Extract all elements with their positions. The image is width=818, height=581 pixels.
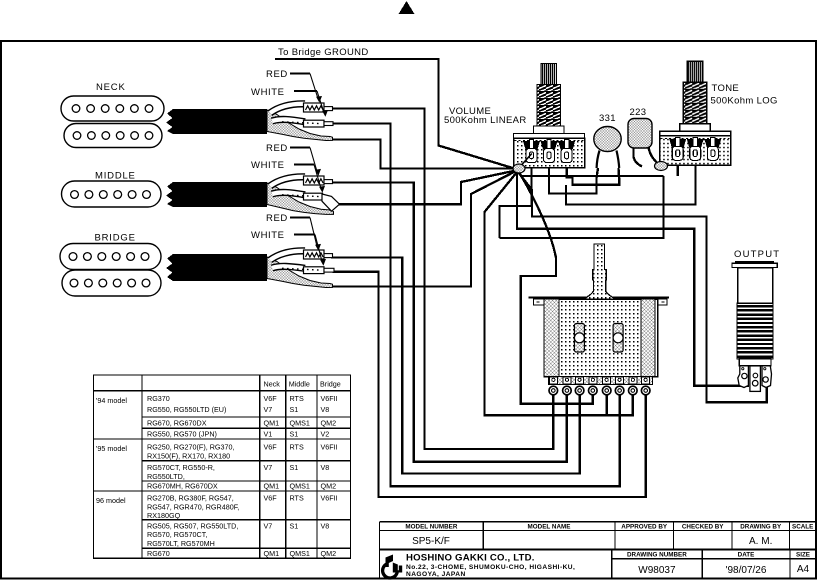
svg-text:APPROVED BY: APPROVED BY	[621, 523, 668, 530]
svg-text:RX180GQ: RX180GQ	[147, 511, 181, 520]
svg-text:QM2: QM2	[321, 549, 337, 558]
svg-text:RG670, RG670DX: RG670, RG670DX	[147, 419, 207, 428]
svg-text:V1: V1	[264, 430, 273, 439]
svg-text:SP5-K/F: SP5-K/F	[412, 536, 450, 547]
svg-text:'98/07/26: '98/07/26	[726, 565, 767, 576]
svg-text:RG505, RG507, RG550LTD,: RG505, RG507, RG550LTD,	[147, 521, 238, 530]
svg-text:223: 223	[630, 107, 647, 118]
svg-text:DRAWING BY: DRAWING BY	[740, 523, 782, 530]
svg-text:WHITE: WHITE	[251, 230, 285, 241]
svg-text:RED: RED	[266, 69, 288, 80]
svg-text:QMS1: QMS1	[290, 419, 310, 428]
svg-text:BRIDGE: BRIDGE	[95, 233, 136, 244]
svg-text:RG670MH, RG670DX: RG670MH, RG670DX	[147, 482, 218, 491]
svg-text:A. M.: A. M.	[749, 536, 772, 547]
svg-text:S1: S1	[290, 430, 299, 439]
svg-text:DATE: DATE	[738, 551, 755, 558]
svg-text:No.22, 3-CHOME, SHUMOKU-CHO, H: No.22, 3-CHOME, SHUMOKU-CHO, HIGASHI-KU,	[406, 564, 575, 571]
svg-text:S1: S1	[290, 463, 299, 472]
svg-text:RG550, RG570 (JPN): RG550, RG570 (JPN)	[147, 430, 217, 439]
svg-text:OUTPUT: OUTPUT	[734, 249, 780, 260]
svg-text:S1: S1	[290, 405, 299, 414]
svg-text:RTS: RTS	[290, 494, 304, 503]
svg-text:V7: V7	[264, 521, 273, 530]
svg-text:RG570CT, RG550-R,: RG570CT, RG550-R,	[147, 463, 215, 472]
svg-text:HOSHINO GAKKI CO., LTD.: HOSHINO GAKKI CO., LTD.	[406, 553, 535, 564]
svg-text:MODEL NUMBER: MODEL NUMBER	[405, 523, 457, 530]
svg-text:V7: V7	[264, 405, 273, 414]
svg-text:QMS1: QMS1	[290, 549, 310, 558]
svg-text:Neck: Neck	[264, 380, 281, 389]
svg-text:V6F: V6F	[264, 494, 278, 503]
svg-text:V8: V8	[321, 463, 330, 472]
svg-text:Middle: Middle	[289, 380, 310, 389]
svg-text:CHECKED BY: CHECKED BY	[682, 523, 724, 530]
svg-text:96 model: 96 model	[96, 496, 126, 505]
svg-text:RG270B, RG380F, RG547,: RG270B, RG380F, RG547,	[147, 494, 234, 503]
svg-text:V6F: V6F	[264, 443, 278, 452]
svg-text:V6FII: V6FII	[321, 494, 338, 503]
svg-text:SIZE: SIZE	[796, 551, 810, 558]
svg-text:331: 331	[599, 113, 616, 124]
svg-text:RG370: RG370	[147, 394, 170, 403]
svg-text:QM1: QM1	[264, 482, 280, 491]
svg-text:V8: V8	[321, 405, 330, 414]
svg-text:RG670: RG670	[147, 549, 170, 558]
svg-text:S1: S1	[290, 521, 299, 530]
svg-text:SCALE: SCALE	[792, 523, 813, 530]
svg-text:MODEL NAME: MODEL NAME	[528, 523, 571, 530]
svg-text:DRAWING NUMBER: DRAWING NUMBER	[627, 551, 687, 558]
svg-text:QM1: QM1	[264, 549, 280, 558]
svg-text:'95 model: '95 model	[96, 444, 127, 453]
svg-text:TONE: TONE	[712, 83, 740, 94]
svg-text:RG570LT, RG570MH: RG570LT, RG570MH	[147, 539, 215, 548]
svg-text:W98037: W98037	[638, 565, 676, 576]
svg-text:Bridge: Bridge	[320, 380, 341, 389]
svg-text:RG550LTD,: RG550LTD,	[147, 472, 185, 481]
svg-text:QMS1: QMS1	[290, 482, 310, 491]
svg-text:RED: RED	[266, 213, 288, 224]
svg-text:WHITE: WHITE	[251, 160, 285, 171]
svg-text:V8: V8	[321, 521, 330, 530]
svg-text:NAGOYA, JAPAN: NAGOYA, JAPAN	[406, 571, 466, 578]
svg-text:MIDDLE: MIDDLE	[95, 171, 136, 182]
svg-text:RG550, RG550LTD (EU): RG550, RG550LTD (EU)	[147, 405, 226, 414]
svg-text:RG570, RG570CT,: RG570, RG570CT,	[147, 530, 207, 539]
svg-text:V6FII: V6FII	[321, 443, 338, 452]
svg-text:V6FII: V6FII	[321, 394, 338, 403]
svg-text:RED: RED	[266, 143, 288, 154]
svg-text:RTS: RTS	[290, 443, 304, 452]
svg-text:RTS: RTS	[290, 394, 304, 403]
svg-text:QM1: QM1	[264, 419, 280, 428]
svg-text:RX150(F), RX170, RX180: RX150(F), RX170, RX180	[147, 452, 230, 461]
svg-text:A4: A4	[797, 564, 810, 575]
svg-text:To Bridge GROUND: To Bridge GROUND	[278, 47, 369, 58]
svg-text:QM2: QM2	[321, 482, 337, 491]
svg-text:'94 model: '94 model	[96, 396, 127, 405]
svg-text:RG250, RG270(F), RG370,: RG250, RG270(F), RG370,	[147, 443, 234, 452]
svg-text:V2: V2	[321, 430, 330, 439]
svg-text:WHITE: WHITE	[251, 87, 285, 98]
svg-text:V6F: V6F	[264, 394, 278, 403]
svg-text:NECK: NECK	[96, 82, 126, 93]
svg-text:QM2: QM2	[321, 419, 337, 428]
svg-text:500Kohm LINEAR: 500Kohm LINEAR	[444, 115, 527, 126]
svg-text:500Kohm LOG: 500Kohm LOG	[711, 96, 778, 107]
svg-text:V7: V7	[264, 463, 273, 472]
